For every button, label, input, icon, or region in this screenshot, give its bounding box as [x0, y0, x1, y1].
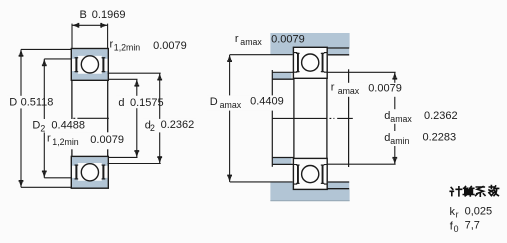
- svg-text:0.0079: 0.0079: [271, 34, 305, 46]
- spacer top line bottom: [328, 181, 349, 183]
- housing bore line right top: [327, 47, 349, 49]
- extension lines B: [71, 24, 73, 49]
- centerline: [272, 117, 352, 119]
- 算: [463, 187, 474, 196]
- shaft seat line bottom-left: [272, 157, 293, 159]
- dimension d_amax / d_amin: [392, 72, 397, 164]
- dimension B: [72, 23, 108, 28]
- 数: [489, 186, 499, 196]
- housing top spacer ring: [328, 49, 349, 55]
- label r_amax shaft (with box): [329, 82, 405, 97]
- label d_amin (with box): [382, 131, 459, 146]
- svg-text:amax: amax: [338, 86, 360, 96]
- shaft right edge: [348, 69, 350, 167]
- svg-text:1,2min: 1,2min: [114, 43, 141, 53]
- wire: silhouette verticals: [71, 80, 73, 156]
- svg-text:2: 2: [40, 124, 45, 134]
- svg-text:2: 2: [150, 123, 155, 133]
- extension lines D: [21, 48, 71, 50]
- svg-text:1,2min: 1,2min: [52, 137, 79, 147]
- housing bottom band fringe: [270, 200, 349, 202]
- 系: [476, 187, 485, 197]
- svg-text:0.4409: 0.4409: [250, 95, 284, 107]
- CJK 计算系数 (drawn strokes): [450, 186, 498, 197]
- silhouette verticals right fig: [293, 78, 295, 158]
- svg-text:D: D: [32, 120, 40, 132]
- f_0 7,7: [450, 220, 480, 234]
- svg-text:d: d: [118, 97, 124, 109]
- housing bottom (blue): [270, 182, 349, 201]
- bearing section top: [71, 49, 108, 81]
- dimension D2 (over D label): [42, 59, 47, 178]
- housing bottom spacer ring: [328, 182, 349, 188]
- svg-text:0.5118: 0.5118: [21, 97, 54, 109]
- spacer bottom line top: [328, 54, 349, 56]
- label D2 (with box): [30, 119, 89, 134]
- dimension d2 (over d label): [157, 73, 162, 163]
- svg-text:0.2362: 0.2362: [424, 110, 458, 122]
- label r_amax top: [235, 33, 305, 47]
- label d2 (with box): [143, 119, 197, 133]
- svg-text:D: D: [9, 97, 17, 109]
- svg-text:r: r: [331, 82, 335, 94]
- svg-text:0.4488: 0.4488: [51, 120, 85, 132]
- extension lines D2: [44, 58, 71, 60]
- label D (with box): [7, 96, 58, 109]
- bearing section top (right fig): [294, 48, 326, 78]
- svg-text:r: r: [456, 210, 459, 220]
- centerline: [73, 117, 109, 119]
- dimension D_amax: [227, 55, 232, 182]
- svg-text:r: r: [235, 33, 239, 45]
- label d (with box): [116, 96, 167, 109]
- extension lines d2: [107, 72, 161, 74]
- label D_amax (with box): [207, 95, 285, 110]
- svg-text:amax: amax: [240, 37, 262, 47]
- k_r 0,025: [450, 205, 493, 219]
- bearing section bottom (right fig, mirrored): [293, 158, 327, 189]
- dimension D: [19, 49, 24, 187]
- svg-text:7,7: 7,7: [465, 220, 480, 232]
- shaft left edge: [271, 70, 273, 167]
- housing top (blue): [270, 33, 349, 55]
- svg-text:0: 0: [454, 224, 459, 234]
- shaft shoulder top (blue): [272, 73, 291, 79]
- label r 1,2min bottom (with box): [46, 132, 126, 149]
- extension lines D_amax: [230, 54, 293, 56]
- svg-text:k: k: [450, 206, 456, 218]
- svg-text:0.1575: 0.1575: [130, 97, 164, 109]
- svg-text:r: r: [47, 133, 51, 145]
- extension lines d_amax: [327, 71, 395, 73]
- shaft shoulder bottom (blue): [272, 158, 291, 164]
- svg-text:0.0079: 0.0079: [368, 83, 402, 95]
- housing bore line right bottom: [327, 188, 349, 190]
- shaft seat line top-left: [272, 78, 293, 80]
- label r 1,2min top: [110, 38, 187, 52]
- svg-text:0,025: 0,025: [465, 205, 493, 217]
- svg-text:0.0079: 0.0079: [153, 40, 187, 52]
- label d_amax (with box): [382, 109, 459, 124]
- svg-text:amax: amax: [390, 114, 412, 124]
- svg-text:0.1969: 0.1969: [92, 9, 126, 21]
- extension lines d: [108, 78, 138, 80]
- 计: [450, 187, 461, 196]
- svg-text:0.0079: 0.0079: [90, 134, 124, 146]
- svg-text:B: B: [80, 9, 87, 21]
- svg-text:amin: amin: [390, 136, 409, 146]
- svg-text:amax: amax: [220, 100, 242, 110]
- svg-text:D: D: [210, 96, 218, 108]
- dimension d: [134, 79, 139, 157]
- bearing section bottom (mirrored): [71, 156, 108, 188]
- svg-text:0.2362: 0.2362: [161, 119, 195, 131]
- svg-text:0.2283: 0.2283: [423, 131, 457, 143]
